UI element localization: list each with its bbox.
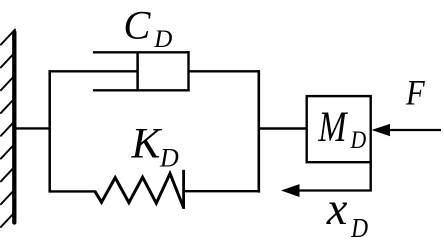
svg-text:D: D <box>153 26 172 53</box>
damper C_D piston plate <box>136 52 139 92</box>
wire: bottom branch right lead <box>184 190 260 192</box>
wall hatch 8 <box>0 189 15 205</box>
wire: damper output rod <box>189 70 261 72</box>
wall hatch 1 <box>0 29 15 45</box>
svg-text:D: D <box>350 214 368 244</box>
wall hatch 3 <box>0 75 15 91</box>
wire: mid connector to mass <box>259 127 308 129</box>
svg-text:C: C <box>123 3 151 48</box>
wire: mass bottom-right drop <box>370 161 372 191</box>
damper C_D cylinder bottom <box>93 89 190 91</box>
node: right junction bar <box>257 70 260 193</box>
spring K_D zigzag <box>95 174 184 208</box>
node: left junction bar <box>48 70 51 193</box>
wire: piston rod (top branch) <box>50 70 139 72</box>
wall hatch 7 <box>0 166 15 182</box>
wall hatch 6 <box>0 143 15 159</box>
wall hatch 9 <box>0 211 15 227</box>
mass M_D box <box>307 96 371 162</box>
force F arrow line <box>389 129 441 131</box>
svg-text:D: D <box>350 127 367 155</box>
svg-text:M: M <box>318 103 349 151</box>
damper C_D cylinder right cap <box>187 51 189 91</box>
displacement x_D arrow line <box>299 189 372 191</box>
wire: wall stub to left junction bar <box>15 127 51 129</box>
wall hatch 4 <box>0 97 15 113</box>
wall hatch 5 <box>0 120 15 136</box>
wall (fixed support) <box>12 32 16 223</box>
svg-text:F: F <box>405 73 425 113</box>
wall hatch 2 <box>0 52 15 68</box>
spring K_D end plate <box>182 170 185 209</box>
svg-text:K: K <box>131 121 163 168</box>
damper C_D cylinder top <box>93 51 190 53</box>
displacement x_D arrowhead <box>281 184 300 197</box>
force F arrowhead <box>372 124 391 136</box>
svg-text:x: x <box>326 184 348 235</box>
wire: bottom branch left lead <box>50 190 96 192</box>
svg-text:D: D <box>159 143 179 172</box>
